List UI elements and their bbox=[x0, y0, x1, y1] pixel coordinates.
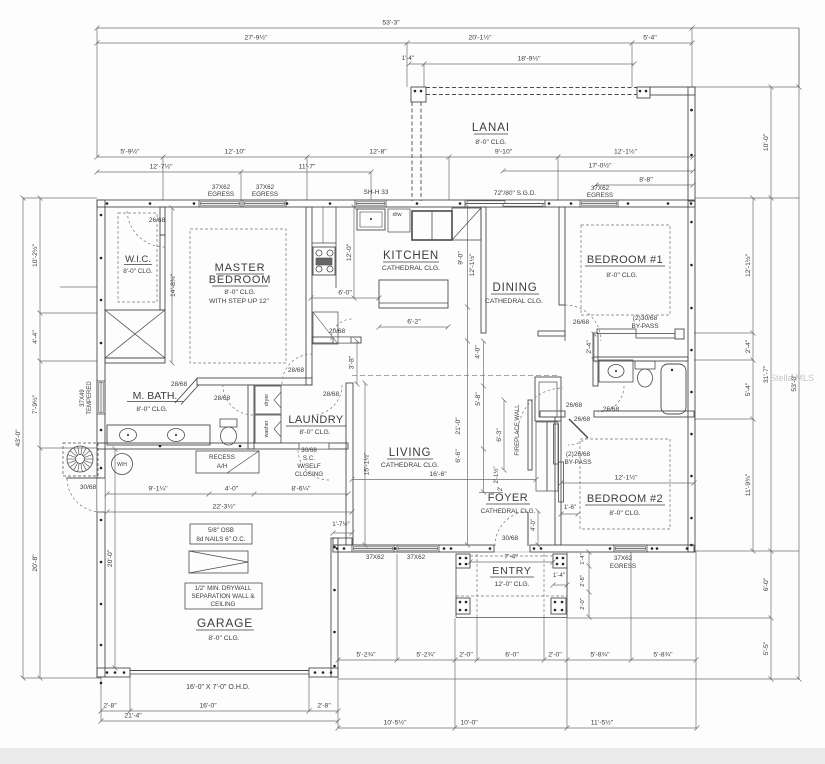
svg-text:8'-0" CLG.: 8'-0" CLG. bbox=[606, 272, 637, 279]
wall bath1 top bbox=[593, 357, 688, 361]
AC fan bbox=[67, 446, 93, 472]
svg-text:16'-0" X 7'-0" O.H.D.: 16'-0" X 7'-0" O.H.D. bbox=[186, 684, 250, 691]
svg-text:DINING: DINING bbox=[492, 282, 537, 294]
window 37X49 tempered left bbox=[97, 381, 105, 414]
svg-text:8'-0" CLG.: 8'-0" CLG. bbox=[609, 510, 640, 517]
svg-text:28/68: 28/68 bbox=[171, 381, 188, 388]
svg-text:14'-8¾": 14'-8¾" bbox=[170, 273, 177, 297]
dim chain right 10'-0 / 31'-7 / 6'-0 / 5'-5 bbox=[770, 87, 772, 679]
osb note box bbox=[190, 524, 252, 544]
svg-text:dryer: dryer bbox=[264, 394, 270, 407]
dim 22'-3.5 garage bbox=[107, 511, 352, 513]
svg-text:RECESS: RECESS bbox=[209, 454, 235, 461]
dim 6'-2 island bbox=[379, 326, 448, 328]
wall dining bottom stub bbox=[538, 331, 565, 336]
dim 12'-1.5 bedroom2 bbox=[561, 482, 694, 484]
svg-text:8'-0" CLG.: 8'-0" CLG. bbox=[123, 268, 153, 275]
wall bath1-bedroom2 bbox=[540, 411, 565, 417]
svg-text:37X62: 37X62 bbox=[407, 554, 426, 561]
svg-text:11'-5½": 11'-5½" bbox=[591, 719, 614, 727]
svg-text:1'-4": 1'-4" bbox=[402, 55, 414, 62]
svg-text:8'-0" CLG.: 8'-0" CLG. bbox=[136, 406, 167, 413]
svg-text:10'-0": 10'-0" bbox=[763, 133, 770, 151]
lanai top wall solid right bbox=[650, 87, 695, 95]
svg-text:8d NAILS 6" O.C.: 8d NAILS 6" O.C. bbox=[196, 536, 245, 543]
garage wall bottom bbox=[97, 668, 130, 677]
svg-text:18'-9½": 18'-9½" bbox=[518, 55, 542, 63]
svg-text:EGRESS: EGRESS bbox=[610, 563, 636, 570]
dim 4'-0 foyer vert bbox=[537, 511, 539, 545]
svg-text:2'-0": 2'-0" bbox=[548, 652, 562, 659]
svg-text:W/H: W/H bbox=[117, 462, 127, 468]
door 26/68 bedroom2 diagonal leaf bbox=[569, 419, 588, 438]
svg-text:5'-8": 5'-8" bbox=[475, 392, 482, 406]
svg-text:A/H: A/H bbox=[217, 463, 228, 470]
water heater W/H bbox=[112, 454, 133, 475]
wic closet bottom double bbox=[105, 358, 165, 363]
svg-text:28/68: 28/68 bbox=[288, 367, 305, 374]
door 28/68 laundry swing bbox=[312, 385, 342, 415]
dim 3'-8 hall bbox=[356, 341, 358, 384]
svg-text:FIREPLACE WALL: FIREPLACE WALL bbox=[515, 404, 521, 456]
dryer box bbox=[255, 386, 281, 414]
fireplace wall bbox=[528, 400, 532, 470]
wic closet box bbox=[105, 310, 165, 358]
svg-text:2'-8": 2'-8" bbox=[580, 575, 586, 587]
svg-text:5'-2¾": 5'-2¾" bbox=[416, 652, 436, 659]
wall bottom living bbox=[333, 545, 494, 552]
svg-text:LIVING: LIVING bbox=[389, 447, 432, 459]
svg-text:28/68: 28/68 bbox=[214, 395, 231, 402]
svg-text:2': 2' bbox=[498, 487, 504, 491]
svg-text:53'-3": 53'-3" bbox=[382, 20, 400, 27]
front door 30/68 opening bbox=[494, 551, 530, 553]
kitchen island bbox=[379, 280, 448, 308]
svg-text:1'-6": 1'-6" bbox=[564, 504, 576, 511]
dim 12'-0 kitchen vert bbox=[353, 207, 355, 298]
garage overhead door line bbox=[130, 670, 309, 672]
svg-text:CATHEDRAL CLG.: CATHEDRAL CLG. bbox=[381, 462, 439, 469]
svg-text:20/68: 20/68 bbox=[329, 328, 346, 335]
sliding glass door 72/80 SGD bbox=[465, 200, 545, 207]
svg-text:27'-9½": 27'-9½" bbox=[245, 34, 269, 42]
svg-text:20'-1½": 20'-1½" bbox=[469, 34, 493, 42]
door 26/68 foyer-hall swing bbox=[518, 388, 563, 433]
pantry shelves bbox=[313, 312, 338, 344]
svg-text:EGRESS: EGRESS bbox=[252, 191, 278, 198]
dim chain left 10'-2 1/2 / 4'-4 / 7'-9 1/2 / 20'-8 bbox=[39, 198, 41, 678]
svg-text:5/8" OSB: 5/8" OSB bbox=[208, 527, 234, 534]
corner pantry bbox=[452, 208, 481, 240]
dim chain center line B 4-0 5-8 6-6 bbox=[483, 341, 485, 492]
front door swing bbox=[495, 511, 530, 546]
fireplace cabinets bbox=[536, 422, 547, 491]
svg-text:12'-1½": 12'-1½" bbox=[614, 148, 638, 156]
left connectors bbox=[23, 197, 97, 199]
svg-text:22'-3½": 22'-3½" bbox=[213, 503, 237, 511]
svg-text:ENTRY: ENTRY bbox=[492, 565, 531, 577]
svg-text:WITH STEP UP 12": WITH STEP UP 12" bbox=[209, 298, 270, 305]
svg-text:30/68: 30/68 bbox=[502, 535, 519, 542]
svg-text:10'-5½": 10'-5½" bbox=[384, 719, 408, 727]
window 37X62 egress bedroom1 bbox=[580, 200, 618, 207]
garage wall right bbox=[331, 538, 338, 677]
right connectors bbox=[695, 86, 799, 88]
svg-text:30/68: 30/68 bbox=[301, 447, 317, 454]
svg-text:4'-0": 4'-0" bbox=[475, 345, 482, 359]
window 37X62 egress bedroom2 bbox=[614, 545, 647, 552]
door 26/68 bedroom1 swing bbox=[565, 305, 601, 341]
wall right exterior bbox=[688, 201, 695, 552]
svg-text:3'-8": 3'-8" bbox=[349, 355, 356, 369]
svg-text:5'-5": 5'-5" bbox=[763, 641, 770, 655]
svg-text:BEDROOM: BEDROOM bbox=[209, 274, 271, 286]
kitchen sink bbox=[357, 209, 385, 230]
lanai right wall bbox=[688, 87, 695, 201]
svg-text:20'-8": 20'-8" bbox=[32, 554, 39, 572]
door 28/68 mbath swing bbox=[223, 385, 253, 415]
svg-text:16'-0": 16'-0" bbox=[199, 703, 217, 710]
svg-text:CEILING: CEILING bbox=[211, 601, 236, 608]
svg-text:8'-0" CLG.: 8'-0" CLG. bbox=[299, 429, 330, 436]
svg-text:BY-PASS: BY-PASS bbox=[564, 459, 592, 466]
window 37X62 egress master 2 bbox=[243, 200, 286, 207]
svg-text:(2)26/68: (2)26/68 bbox=[566, 451, 591, 458]
door 26/68 wic swing bbox=[127, 209, 165, 247]
svg-text:(2)30/68: (2)30/68 bbox=[633, 315, 658, 322]
witness lines row157 bbox=[162, 157, 164, 200]
washer box bbox=[255, 415, 281, 443]
svg-text:5'-2¾": 5'-2¾" bbox=[356, 652, 376, 659]
svg-text:SEPARATION WALL &: SEPARATION WALL & bbox=[192, 593, 256, 600]
svg-text:LANAI: LANAI bbox=[472, 122, 510, 134]
svg-text:1'-4": 1'-4" bbox=[553, 573, 565, 579]
svg-text:16'-6": 16'-6" bbox=[429, 471, 447, 478]
svg-text:2'-4": 2'-4" bbox=[745, 339, 752, 353]
svg-text:6'-6": 6'-6" bbox=[455, 449, 462, 463]
svg-text:28/68: 28/68 bbox=[323, 391, 340, 398]
svg-text:37X62: 37X62 bbox=[366, 554, 385, 561]
svg-text:EGRESS: EGRESS bbox=[587, 192, 613, 199]
svg-text:10'-2½": 10'-2½" bbox=[31, 243, 39, 267]
wall bedroom1 closet right bbox=[675, 329, 684, 339]
svg-text:12'-0": 12'-0" bbox=[346, 243, 353, 261]
svg-text:2'-0": 2'-0" bbox=[459, 652, 473, 659]
svg-text:15'-1½": 15'-1½" bbox=[362, 452, 370, 476]
svg-text:12'-1½": 12'-1½" bbox=[615, 474, 639, 482]
svg-text:7'-4": 7'-4" bbox=[504, 554, 518, 561]
svg-text:FOYER: FOYER bbox=[488, 492, 528, 504]
svg-text:6'-0": 6'-0" bbox=[505, 652, 519, 659]
svg-text:2'-8": 2'-8" bbox=[317, 703, 331, 710]
svg-text:37X62: 37X62 bbox=[614, 555, 633, 562]
svg-text:2'-4": 2'-4" bbox=[586, 340, 593, 354]
dim row y711 garage door bbox=[101, 710, 338, 712]
wall master-kitchen bbox=[306, 207, 312, 385]
window kitchen SH-H 33 bbox=[355, 200, 386, 207]
svg-text:8'-0" CLG.: 8'-0" CLG. bbox=[475, 139, 506, 146]
recess AH box bbox=[196, 451, 259, 473]
entry right small chain bbox=[588, 552, 590, 617]
svg-text:M. BATH.: M. BATH. bbox=[133, 390, 178, 402]
bottom page shade bbox=[0, 748, 825, 764]
dim 6'-3 fireplace bbox=[503, 400, 505, 470]
door 28/68 master swing bbox=[282, 354, 312, 384]
svg-text:TEMPERED: TEMPERED bbox=[87, 381, 93, 415]
stove bbox=[313, 247, 335, 275]
wall kitchen pantry bottom bbox=[312, 337, 361, 343]
svg-text:9'-1¼": 9'-1¼" bbox=[148, 486, 168, 493]
svg-text:8'-8": 8'-8" bbox=[639, 177, 653, 184]
svg-text:12'-0" CLG.: 12'-0" CLG. bbox=[494, 581, 529, 588]
svg-text:31'-7": 31'-7" bbox=[763, 365, 770, 383]
wall dots top bbox=[106, 202, 109, 205]
wall wic top cap bbox=[160, 207, 165, 235]
dishwasher bbox=[388, 209, 410, 232]
wall hall-bedroom1 jamb bbox=[564, 305, 566, 341]
drywall note box bbox=[185, 583, 262, 609]
master bedroom dashed outline bbox=[190, 229, 286, 363]
svg-text:4'-0": 4'-0" bbox=[225, 486, 239, 493]
svg-text:72"/80" S.G.D.: 72"/80" S.G.D. bbox=[494, 190, 536, 197]
svg-text:9'-0": 9'-0" bbox=[458, 251, 465, 265]
lanai left wall dashed bbox=[411, 102, 413, 201]
left wall stub line bbox=[60, 286, 97, 288]
svg-text:CATHEDRAL CLG.: CATHEDRAL CLG. bbox=[481, 508, 536, 515]
svg-text:9'-10": 9'-10" bbox=[495, 149, 513, 156]
dim row y660 porch bbox=[338, 659, 696, 661]
svg-text:CLOSING: CLOSING bbox=[295, 471, 323, 478]
dim 6'-0 kitchen bbox=[311, 297, 379, 299]
svg-text:5'-9½": 5'-9½" bbox=[120, 148, 140, 156]
lanai top wall post left bbox=[411, 87, 426, 102]
wall dots right bbox=[690, 109, 693, 112]
svg-text:BEDROOM #1: BEDROOM #1 bbox=[587, 254, 663, 266]
svg-text:1/2" MIN. DRYWALL: 1/2" MIN. DRYWALL bbox=[195, 585, 252, 592]
entry post 2 bbox=[553, 554, 567, 568]
svg-text:EGRESS: EGRESS bbox=[208, 191, 234, 198]
window 37X62 living 1 bbox=[352, 545, 394, 552]
svg-text:12'-8": 12'-8" bbox=[369, 149, 387, 156]
bedroom1 closet bypass doors bbox=[597, 329, 636, 334]
mbath toilet bbox=[220, 419, 237, 427]
bath1 toilet bbox=[635, 361, 655, 369]
wall dots left bbox=[100, 214, 103, 217]
svg-text:37X62: 37X62 bbox=[212, 184, 231, 191]
bedroom1 dashed outline bbox=[581, 225, 670, 315]
wic dashed outline bbox=[118, 213, 157, 302]
svg-text:MASTER: MASTER bbox=[215, 262, 266, 274]
fireplace chimney box bbox=[535, 377, 561, 421]
wall foyer-bedroom2 bbox=[555, 417, 561, 545]
bottom witness lines bbox=[129, 677, 131, 711]
lanai top wall screened dashed bbox=[426, 87, 637, 89]
door 26/68 bath1 swing bbox=[598, 386, 624, 412]
svg-text:12'-10": 12'-10" bbox=[224, 149, 246, 156]
svg-text:2'-8": 2'-8" bbox=[103, 703, 117, 710]
svg-text:6'-3": 6'-3" bbox=[496, 428, 503, 442]
dim row y172 bbox=[97, 171, 371, 173]
svg-text:8'-6¼": 8'-6¼" bbox=[291, 486, 311, 493]
entry post 4 bbox=[551, 598, 566, 614]
wall dining right bbox=[559, 207, 565, 305]
svg-text:2'-1½": 2'-1½" bbox=[493, 467, 500, 484]
svg-text:2'-0": 2'-0" bbox=[580, 598, 586, 610]
svg-text:washer: washer bbox=[264, 420, 270, 437]
dim chain right 12'-1 1/2 / 2'-4 / 5'-4 / 11'-9 3/4 bbox=[752, 198, 754, 551]
truss brace bbox=[189, 551, 248, 573]
svg-text:S.C.: S.C. bbox=[303, 455, 315, 462]
svg-text:8'-0" CLG.: 8'-0" CLG. bbox=[224, 289, 255, 296]
dim 7'-4 entry bbox=[470, 561, 553, 563]
dim 53'-3" overall top bbox=[97, 27, 692, 29]
door 30/68 exterior swing bbox=[67, 478, 101, 512]
dim 43'-0 left overall bbox=[22, 198, 24, 678]
svg-text:12'-7½": 12'-7½" bbox=[150, 163, 174, 171]
wall dots mbath sep bbox=[159, 445, 162, 448]
dim 1'-4 and 18'-9 1/2 lanai bbox=[409, 63, 634, 65]
dim 15'-1.5 living bbox=[364, 383, 366, 545]
bedroom2 bypass closet panels bbox=[554, 424, 559, 464]
svg-text:12'-1½": 12'-1½" bbox=[744, 253, 752, 277]
wall wic-master bbox=[160, 235, 165, 310]
svg-text:37X62: 37X62 bbox=[256, 184, 275, 191]
entry dashed outline bbox=[476, 554, 478, 618]
wall left exterior bbox=[97, 200, 105, 677]
svg-text:17'-0½": 17'-0½" bbox=[589, 162, 613, 170]
bath1 tub bbox=[661, 364, 686, 414]
svg-text:1'-7½": 1'-7½" bbox=[332, 521, 349, 528]
svg-text:20'-0": 20'-0" bbox=[107, 549, 114, 567]
refrigerator bbox=[412, 211, 452, 240]
dim 14'-8.75 wic wall bbox=[171, 208, 173, 363]
svg-text:21'-4": 21'-4" bbox=[124, 713, 142, 720]
wall mbath diagonal bbox=[175, 379, 197, 404]
svg-text:26/68: 26/68 bbox=[149, 217, 166, 224]
svg-text:5'-8¾": 5'-8¾" bbox=[590, 652, 610, 659]
dim row garage 9'-1.25 4'-0 8'-6.25 bbox=[107, 493, 348, 495]
kitchen counter bbox=[335, 207, 337, 288]
wall bottom foyer-bedroom2 bbox=[530, 545, 694, 552]
svg-text:8'-0" CLG.: 8'-0" CLG. bbox=[208, 635, 239, 642]
dim 17'-0 1/2 lanai bbox=[503, 170, 693, 172]
svg-text:5'-4": 5'-4" bbox=[643, 35, 657, 42]
svg-text:26/68: 26/68 bbox=[603, 406, 620, 413]
svg-text:6'-0": 6'-0" bbox=[338, 290, 352, 297]
svg-text:5'-8¾": 5'-8¾" bbox=[653, 652, 673, 659]
dim 53'-0 right overall bbox=[798, 87, 800, 679]
svg-text:43'-0": 43'-0" bbox=[15, 429, 22, 447]
svg-text:CATHEDRAL CLG.: CATHEDRAL CLG. bbox=[485, 298, 543, 305]
wall mbath-garage separation bbox=[97, 443, 348, 449]
entry slab sides bbox=[455, 568, 457, 617]
svg-text:10'-0": 10'-0" bbox=[460, 720, 478, 727]
svg-text:5'-4": 5'-4" bbox=[745, 382, 752, 396]
wall laundry left bbox=[248, 385, 254, 449]
svg-text:37X62: 37X62 bbox=[591, 185, 610, 192]
lanai top wall post right bbox=[637, 87, 650, 98]
bath1 vanity bbox=[599, 360, 633, 382]
wall master bottom bbox=[197, 378, 312, 385]
door 20/68 pantry swing bbox=[331, 319, 352, 340]
ceiling break dashed bbox=[352, 375, 557, 377]
svg-text:4'-0": 4'-0" bbox=[531, 519, 537, 531]
svg-text:GARAGE: GARAGE bbox=[197, 616, 253, 630]
dim 16'-6 living bbox=[352, 479, 536, 481]
svg-text:30/68: 30/68 bbox=[80, 484, 97, 491]
window 37X62 living 2 bbox=[397, 545, 439, 552]
svg-text:6'-2": 6'-2" bbox=[407, 319, 421, 326]
svg-text:11'-9¾": 11'-9¾" bbox=[745, 473, 752, 496]
svg-text:BY-PASS: BY-PASS bbox=[631, 323, 659, 330]
entry post 1 bbox=[456, 554, 470, 568]
svg-text:4'-4": 4'-4" bbox=[32, 330, 39, 344]
window 37X62 egress master 1 bbox=[199, 200, 241, 207]
svg-text:d/w: d/w bbox=[392, 212, 402, 218]
svg-text:StellarMLS: StellarMLS bbox=[770, 373, 814, 383]
svg-text:12'-1½": 12'-1½" bbox=[468, 253, 476, 277]
entry post 3 bbox=[456, 598, 470, 614]
svg-text:26/68: 26/68 bbox=[566, 402, 583, 409]
wall dining left bbox=[481, 207, 486, 333]
svg-text:26/68: 26/68 bbox=[573, 319, 590, 326]
wall living left bbox=[346, 383, 353, 545]
bedroom2 dashed outline bbox=[580, 439, 670, 529]
mbath vanity bbox=[107, 425, 210, 445]
svg-text:BEDROOM #2: BEDROOM #2 bbox=[587, 493, 663, 505]
dim 1'-6 foyer bbox=[561, 513, 578, 515]
AC pad dashed bbox=[63, 443, 98, 476]
svg-text:W.I.C.: W.I.C. bbox=[125, 254, 151, 265]
garage jog wall 1'-7.5 bbox=[333, 538, 352, 545]
door 30/68 SC laundry-garage swing bbox=[298, 449, 329, 480]
wall dots bottom living bbox=[336, 547, 339, 550]
svg-text:37X49: 37X49 bbox=[80, 389, 86, 407]
dim 2'-4 hall closet bbox=[593, 334, 595, 360]
svg-text:SH-H 33: SH-H 33 bbox=[364, 189, 389, 196]
wall bath1 left bbox=[593, 333, 598, 386]
svg-text:CATHEDRAL CLG.: CATHEDRAL CLG. bbox=[382, 265, 440, 272]
svg-text:7'-9½": 7'-9½" bbox=[31, 394, 39, 414]
dim 20'-0 garage bbox=[114, 449, 116, 668]
wall dots lanai bbox=[414, 90, 417, 93]
dim row y157 window centers bbox=[97, 156, 693, 158]
witness lines top bbox=[96, 28, 98, 157]
svg-text:W/SELF: W/SELF bbox=[297, 463, 321, 470]
dim row y728 bottom bbox=[338, 727, 697, 729]
svg-text:21'-0": 21'-0" bbox=[455, 417, 462, 435]
dim 21'-4 bbox=[101, 720, 338, 722]
dim chain center line A bbox=[467, 206, 469, 545]
svg-text:KITCHEN: KITCHEN bbox=[383, 250, 439, 262]
dim row 27'-9 1/2 / 20'-1 1/2 / 5'-4 bbox=[97, 42, 692, 44]
svg-text:6'-0": 6'-0" bbox=[763, 577, 770, 591]
svg-text:LAUNDRY: LAUNDRY bbox=[288, 414, 343, 426]
dim 8'-8 lanai bbox=[596, 184, 693, 186]
wall top exterior bbox=[97, 200, 695, 207]
door opening left wall bbox=[98, 478, 104, 512]
svg-text:1'-4": 1'-4" bbox=[580, 553, 586, 565]
wall dots garage bbox=[100, 682, 103, 685]
svg-text:26/68: 26/68 bbox=[574, 416, 591, 423]
